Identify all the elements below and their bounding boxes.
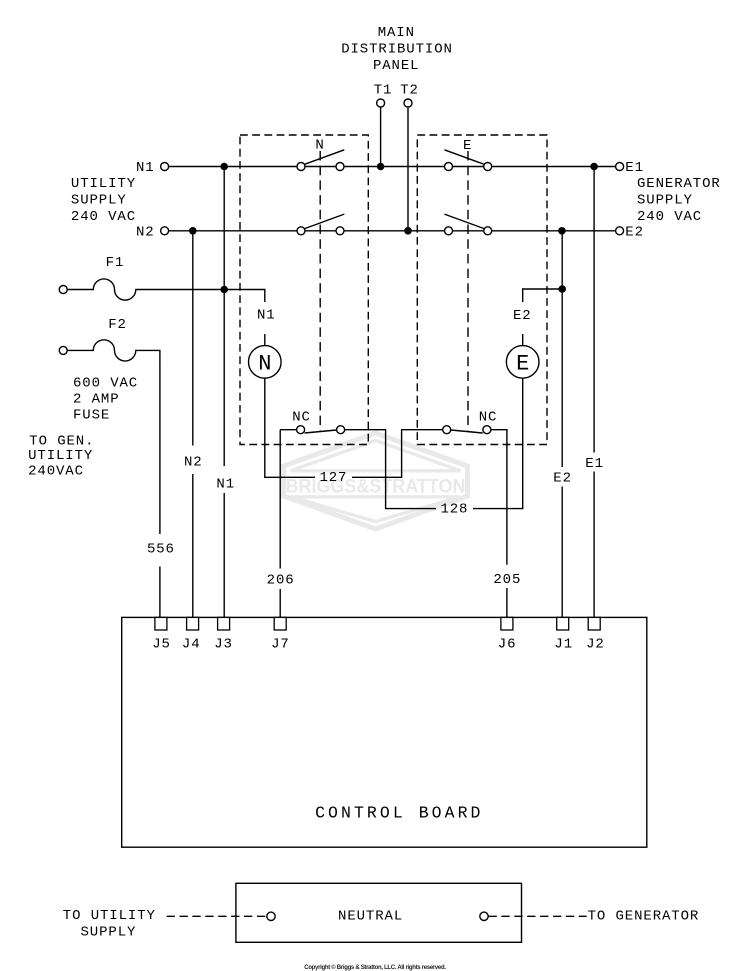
svg-text:TO UTILITY: TO UTILITY [63,908,156,924]
node T1 junction dot [377,163,385,171]
svg-text:J5: J5 [152,637,171,653]
switch N pole2 contacts [297,227,305,235]
wire E2 upper [561,231,563,467]
svg-text:205: 205 [493,572,521,588]
wire E2 lower [561,487,563,618]
svg-text:E: E [516,352,529,377]
wire 127 right segment to NC2 [352,430,443,478]
wire 206 upper [279,430,281,569]
wire NC1 right to 128 [345,430,436,509]
svg-text:TO GEN.: TO GEN. [29,433,94,449]
node N2 bus junction dot [189,227,197,235]
svg-text:PANEL: PANEL [373,58,420,74]
svg-text:TO GENERATOR: TO GENERATOR [588,909,700,925]
control board rectangle [122,617,647,847]
node F1/N1 junction dot [220,286,228,294]
wire bus row1 N1-E1 [169,166,616,168]
wire T2 drop [407,107,409,231]
watermark diamond lower inner carve [291,497,461,522]
svg-text:NC: NC [292,410,311,426]
terminal J2 square [588,617,600,630]
switch E pole1 contacts [445,163,453,171]
svg-text:N2: N2 [184,455,203,471]
svg-text:N2: N2 [136,225,155,241]
terminal N2 circle [161,227,169,235]
svg-text:DISTRIBUTION: DISTRIBUTION [341,42,453,58]
svg-text:FUSE: FUSE [73,407,110,423]
svg-text:T1: T1 [374,82,393,98]
wire 128 right segment to E coil [473,378,523,508]
svg-text:UTILITY: UTILITY [71,176,136,192]
transfer switch E dashed box [417,135,547,445]
dashed lead to generator [489,915,587,917]
svg-text:N1: N1 [136,160,155,176]
node E2 bus junction dot [558,227,566,235]
svg-text:240VAC: 240VAC [28,463,84,479]
svg-text:J2: J2 [586,637,605,653]
wire T1 drop [380,107,382,167]
svg-text:SUPPLY: SUPPLY [637,192,693,208]
watermark diamond upper inner carve [291,441,461,471]
wire 556 lower [159,567,161,618]
svg-text:J3: J3 [214,637,233,653]
fuse F1 body and wire to N coil [67,279,265,302]
fuse F2 body and wire 556 upper [67,340,160,534]
svg-text:E: E [463,138,472,154]
fuse F1 terminal circle [59,286,67,294]
svg-text:SUPPLY: SUPPLY [81,925,137,941]
dashed lead to utility supply [167,915,267,917]
svg-text:2 AMP: 2 AMP [73,392,120,408]
svg-text:E1: E1 [585,456,604,472]
neutral left terminal circle [267,912,275,920]
svg-text:N: N [315,137,324,153]
svg-text:SUPPLY: SUPPLY [71,192,127,208]
wire N1 upper [223,167,225,467]
svg-text:556: 556 [147,541,175,557]
svg-text:J1: J1 [554,637,573,653]
svg-text:J7: J7 [271,637,290,653]
svg-text:128: 128 [440,502,468,518]
watermark Briggs & Stratton diamond outer outline [284,433,468,529]
svg-text:240 VAC: 240 VAC [637,209,702,225]
wire NC1 left lead from 206 riser [280,429,296,431]
svg-text:J4: J4 [182,637,201,653]
wire NC2 right lead / 205 upper [491,430,507,565]
terminal T1 circle [377,99,385,107]
N contactor mechanical dashed link [319,151,321,431]
wire N coil bottom to 127 [265,378,315,477]
wire N2 upper [192,231,194,446]
svg-text:206: 206 [267,573,295,589]
wire N1 lower [223,493,225,617]
node T2 junction dot [404,227,412,235]
relay coil E circle [506,346,539,379]
svg-text:600 VAC: 600 VAC [73,375,138,391]
svg-text:N1: N1 [257,308,276,324]
node E coil / E2 junction dot [558,285,566,293]
E contactor mechanical dashed link [467,151,469,431]
wire 205 lower [506,588,508,617]
svg-text:MAIN: MAIN [378,25,415,41]
switch E pole2 blade [444,214,483,228]
switch N pole1 blade [305,150,344,164]
contact NC1 blade [305,430,337,433]
terminal E1 circle [616,163,624,171]
svg-text:NEUTRAL: NEUTRAL [338,909,403,925]
contact NC2 blade [451,430,483,433]
neutral right terminal circle [480,912,488,920]
terminal J5 square [155,617,167,630]
switch N pole1 contacts [297,163,305,171]
switch E pole1 blade [444,150,483,164]
svg-text:UTILITY: UTILITY [28,448,93,464]
svg-text:CONTROL BOARD: CONTROL BOARD [315,803,483,822]
svg-text:F1: F1 [106,255,125,271]
terminal J4 square [187,617,199,630]
contact NC1 circles [297,426,305,434]
neutral block rectangle [236,883,522,942]
svg-text:Copyright © Briggs & Stratton,: Copyright © Briggs & Stratton, LLC. All … [304,964,446,971]
svg-text:240 VAC: 240 VAC [71,209,136,225]
terminal N1 circle [161,163,169,171]
wire N2 lower [192,474,194,617]
node E1 bus junction dot [590,163,598,171]
svg-text:E2: E2 [513,308,532,324]
svg-text:J6: J6 [498,637,517,653]
svg-text:GENERATOR: GENERATOR [637,176,721,192]
svg-text:T2: T2 [400,82,419,98]
terminal T2 circle [404,99,412,107]
svg-text:E2: E2 [625,225,644,241]
svg-text:E1: E1 [625,160,644,176]
wire N coil top lower segment [264,334,266,346]
terminal J1 square [557,617,569,630]
wire E1 upper [593,167,595,453]
terminal E2 circle [616,227,624,235]
wire E1 lower [593,472,595,618]
WATERMARK [284,433,468,529]
switch E pole2 contacts [445,227,453,235]
node N1 bus junction dot [220,163,228,171]
svg-text:N1: N1 [216,476,235,492]
terminal J6 square [501,617,513,630]
svg-text:N: N [258,352,271,377]
terminal J7 square [274,617,286,630]
svg-text:BRIGGS&STRATTON: BRIGGS&STRATTON [286,475,466,497]
svg-text:F2: F2 [108,317,127,333]
wire E coil top upper segment [523,289,563,302]
svg-text:127: 127 [319,470,347,486]
relay coil N circle [248,346,281,379]
svg-text:NC: NC [479,409,498,425]
switch N pole2 blade [305,214,344,228]
wire 206 lower [279,589,281,617]
wire E coil top to E2 [522,334,524,346]
contact NC2 circles [443,426,451,434]
wire bus row2 N2-E2 [169,230,616,232]
transfer switch N dashed box [240,135,368,445]
fuse F2 terminal circle [59,346,67,354]
svg-text:E2: E2 [553,471,572,487]
terminal J3 square [218,617,230,630]
